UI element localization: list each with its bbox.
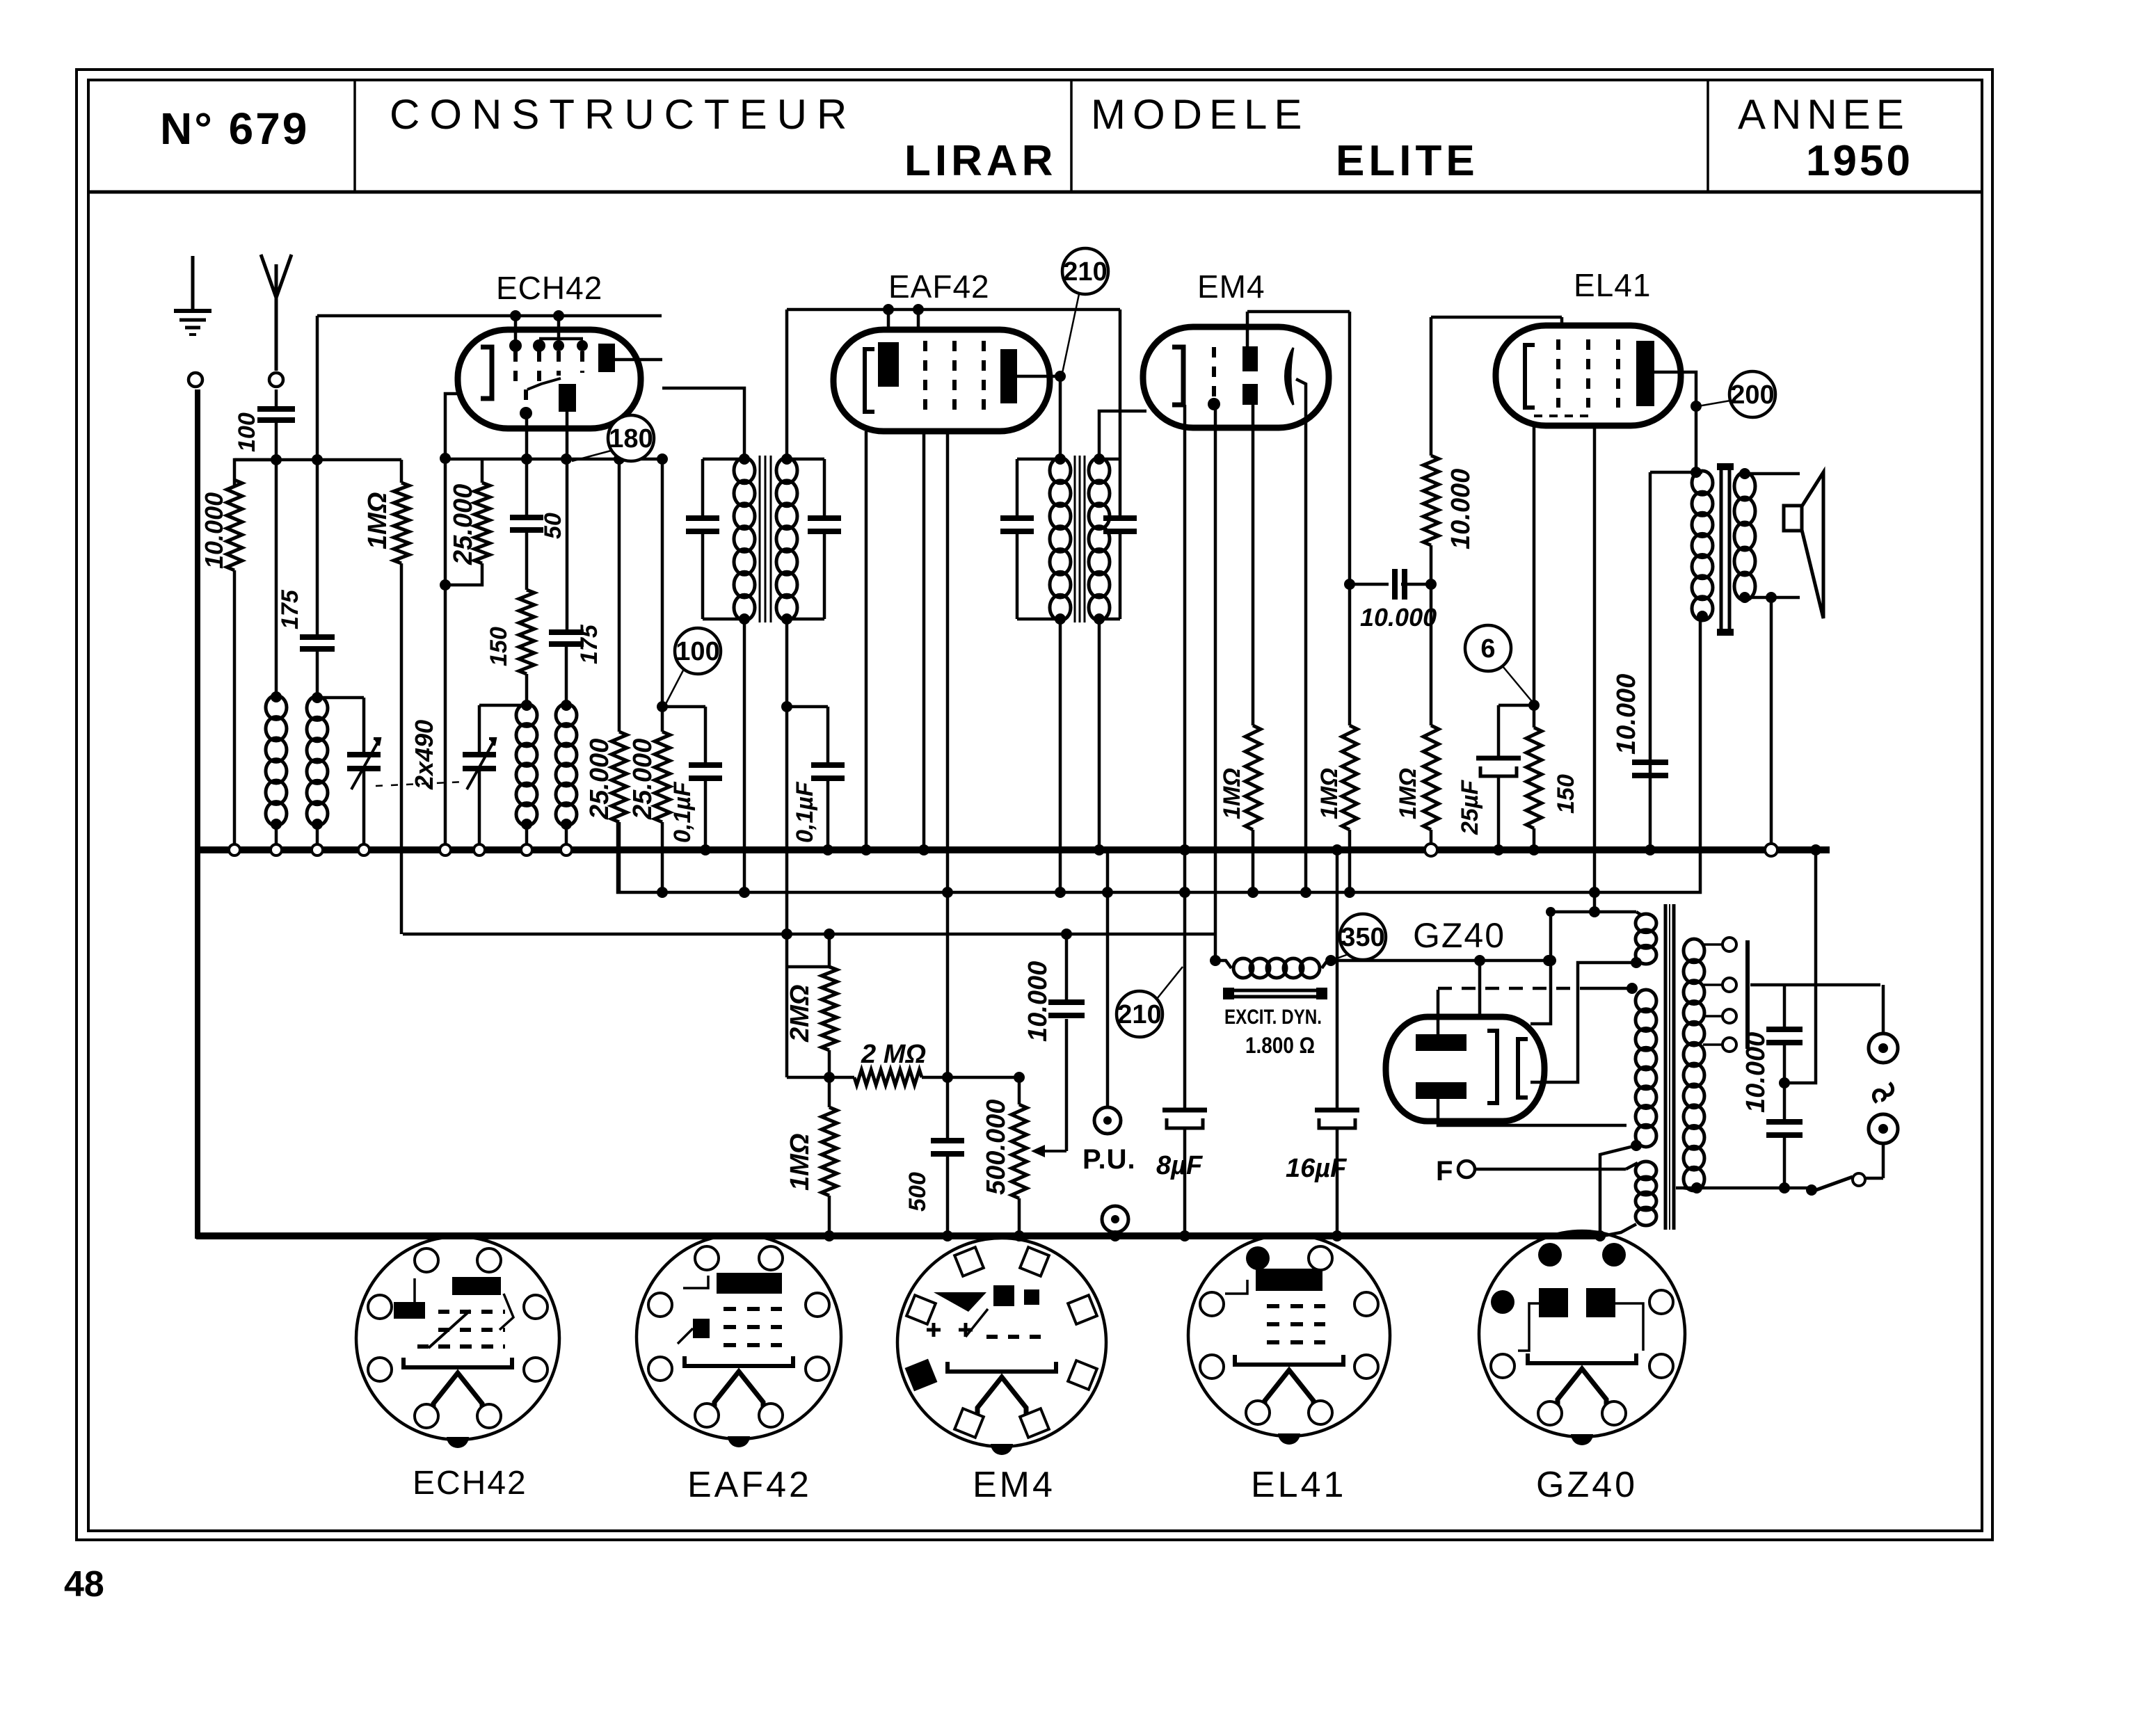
socket ECH42 bbox=[356, 1237, 559, 1448]
pot wiper arrow bbox=[1031, 1019, 1066, 1157]
capacitor 100 bbox=[257, 409, 295, 420]
svg-text:GZ40: GZ40 bbox=[1536, 1465, 1638, 1505]
label EAF42 bbox=[888, 268, 990, 305]
GZ40 cathode B bbox=[1518, 1039, 1528, 1098]
OT left rail bbox=[1649, 472, 1652, 762]
wire to R 10.000 bbox=[234, 460, 276, 487]
OT core bbox=[1717, 463, 1734, 636]
label GZ40 bbox=[1413, 916, 1505, 955]
ECH42 cathode bbox=[481, 347, 492, 399]
wire EL41 pin2 bbox=[1589, 426, 1600, 912]
ECH42 grid 3 bbox=[553, 340, 564, 376]
wire EAF42 top net bbox=[787, 304, 1120, 459]
ECH42 grid 2 bbox=[533, 339, 545, 381]
wire EAF42 cathode pin bbox=[861, 431, 872, 855]
capacitor 25uF bbox=[1476, 705, 1534, 855]
svg-text:2x490: 2x490 bbox=[410, 720, 438, 790]
label 50 bbox=[540, 513, 566, 539]
circle 350 bbox=[1340, 914, 1386, 960]
terminal A bbox=[269, 373, 283, 387]
header CONSTRUCTEUR bbox=[390, 91, 856, 138]
svg-text:210: 210 bbox=[1117, 1000, 1161, 1029]
label 1M A bbox=[1219, 768, 1245, 819]
resistor 1M C bbox=[1423, 584, 1439, 856]
capacitor 8uF bbox=[1162, 1110, 1207, 1241]
field coil core bbox=[1223, 988, 1327, 999]
wire EM4 pin1 bbox=[1179, 405, 1190, 855]
node antenna junction bbox=[271, 454, 282, 465]
resistor 25.000 osc bbox=[445, 459, 490, 585]
svg-text:CONSTRUCTEUR: CONSTRUCTEUR bbox=[390, 91, 856, 138]
GZ40 anode B bbox=[1416, 1082, 1466, 1099]
resistor 2M horizontal bbox=[787, 1070, 1019, 1085]
svg-text:EAF42: EAF42 bbox=[888, 268, 990, 305]
capacitor 175 antenna bbox=[300, 637, 335, 649]
header divider 3 bbox=[1707, 80, 1709, 192]
jack mains B bbox=[1869, 1114, 1898, 1178]
svg-text:LIRAR: LIRAR bbox=[904, 137, 1057, 185]
IF1 coil primary bbox=[734, 458, 755, 620]
svg-text:25.000: 25.000 bbox=[628, 739, 657, 820]
wire EL41 top net bbox=[1431, 317, 1562, 325]
antenna symbol bbox=[261, 255, 291, 371]
label 1M grid bbox=[363, 492, 392, 549]
tube GZ40 envelope bbox=[1386, 1017, 1544, 1121]
wire 2M link bbox=[787, 965, 829, 969]
socket label EL41 bbox=[1251, 1465, 1346, 1505]
label 1800 ohm bbox=[1245, 1033, 1315, 1058]
coil L3 osc primary bbox=[516, 704, 537, 826]
capacitor 0.1uF B bbox=[811, 707, 845, 855]
coil L1 antenna primary bbox=[266, 696, 287, 826]
svg-text:175: 175 bbox=[576, 624, 602, 664]
wire EAF42 pin3 diode load bbox=[942, 431, 953, 1077]
OT primary coil bbox=[1692, 471, 1713, 620]
ECH42 grid 4 bbox=[577, 340, 588, 373]
label 175 antenna bbox=[277, 589, 303, 629]
node 0.1uF A junction bbox=[657, 701, 705, 712]
wire R10.000 to bus bbox=[233, 570, 237, 850]
node excit left bbox=[1210, 955, 1221, 966]
wire osc grid lead bbox=[525, 412, 529, 517]
svg-text:ECH42: ECH42 bbox=[496, 270, 602, 306]
jack PU ground bbox=[1102, 1206, 1128, 1241]
tube EM4 envelope bbox=[1143, 327, 1329, 428]
ECH42 osc grid detail bbox=[520, 378, 561, 419]
leader 6 bbox=[1503, 666, 1534, 704]
EM4 target plate B bbox=[1242, 384, 1258, 405]
header MODELE bbox=[1091, 91, 1309, 138]
svg-text:8µF: 8µF bbox=[1156, 1151, 1204, 1180]
socket label EAF42 bbox=[687, 1465, 812, 1505]
svg-text:N° 679: N° 679 bbox=[160, 104, 309, 154]
socket label ECH42 bbox=[413, 1465, 527, 1502]
mains tilde bbox=[1873, 1083, 1892, 1102]
svg-text:150: 150 bbox=[486, 627, 512, 666]
potentiometer 500.000 bbox=[1012, 1072, 1027, 1241]
bottom bus wire bbox=[196, 1232, 1601, 1239]
label 0.1uF B bbox=[792, 781, 818, 843]
node ECH42 cathode junction bbox=[440, 453, 451, 464]
EL41 anode plate bbox=[1636, 341, 1654, 406]
field coil EXCIT DYN bbox=[1215, 958, 1391, 978]
svg-text:ECH42: ECH42 bbox=[413, 1465, 527, 1502]
IF2 capacitor left bbox=[1000, 459, 1034, 619]
label 150 cathode bbox=[1553, 774, 1579, 814]
node coupling cap left bbox=[1344, 579, 1355, 590]
resistor 1M AF bbox=[822, 1077, 837, 1241]
leader 200 bbox=[1698, 401, 1730, 406]
label 10.000 anode bbox=[1612, 674, 1641, 755]
svg-text:10.000: 10.000 bbox=[1446, 469, 1476, 549]
svg-text:1MΩ: 1MΩ bbox=[1316, 768, 1343, 819]
header 1950 bbox=[1806, 137, 1913, 185]
EL41 grid 2 bbox=[1586, 339, 1590, 408]
IF2 bottom wire bbox=[1017, 613, 1105, 625]
svg-text:10.000: 10.000 bbox=[1741, 1032, 1771, 1113]
svg-text:P.U.: P.U. bbox=[1082, 1144, 1136, 1175]
label 2M vertical bbox=[785, 985, 815, 1043]
wire HT coil return bbox=[1594, 1140, 1642, 1241]
svg-text:500: 500 bbox=[904, 1172, 931, 1212]
wire GZ40 anode A pin bbox=[1437, 990, 1440, 1034]
IF2 core bbox=[1075, 456, 1085, 622]
capacitor 175 osc bbox=[549, 632, 584, 644]
terminal F bbox=[1436, 1156, 1638, 1187]
svg-text:10.000: 10.000 bbox=[1360, 603, 1437, 632]
label 100 bbox=[234, 412, 260, 452]
wire ant coil to bus bbox=[271, 824, 282, 855]
svg-text:350: 350 bbox=[1341, 923, 1384, 952]
svg-text:ELITE: ELITE bbox=[1336, 137, 1479, 185]
page border inner bbox=[88, 80, 1982, 1531]
terminal E bbox=[189, 373, 202, 387]
GZ40 anode A bbox=[1416, 1034, 1466, 1051]
speaker bottom wire bbox=[1745, 592, 1800, 603]
label PU bbox=[1082, 1144, 1136, 1175]
ECH42 grid 1 bbox=[509, 339, 522, 381]
wire grid net bbox=[234, 458, 401, 462]
wire IF2 L1 bottom to H2 bbox=[1055, 619, 1066, 898]
svg-text:1MΩ: 1MΩ bbox=[363, 492, 392, 549]
EAF42 diode anode bbox=[878, 342, 899, 387]
svg-text:0,1µF: 0,1µF bbox=[792, 781, 818, 843]
node osc coil1 top bbox=[521, 700, 532, 711]
wire IF2 det out bbox=[1099, 411, 1146, 459]
node antenna coil top bbox=[271, 691, 282, 702]
EAF42 grid 2 bbox=[952, 341, 957, 412]
label 25.000 osc bbox=[449, 484, 478, 565]
svg-text:1MΩ: 1MΩ bbox=[1219, 768, 1245, 819]
socket EAF42 bbox=[637, 1235, 841, 1447]
leader 210 bottom bbox=[1157, 967, 1183, 999]
EL41 inner detail bbox=[1534, 415, 1593, 417]
label 10.000 EL41 bbox=[1446, 469, 1476, 549]
PT primary taps bbox=[1703, 938, 1736, 1052]
node antenna coil bottom bbox=[271, 819, 282, 830]
header ANNEE bbox=[1738, 91, 1910, 138]
svg-text:2 MΩ: 2 MΩ bbox=[861, 1040, 926, 1069]
variable capacitor CV1 bbox=[347, 739, 381, 789]
tube EAF42 envelope bbox=[833, 330, 1050, 431]
EL41 grid 1 bbox=[1556, 339, 1560, 408]
speaker driver bbox=[1784, 506, 1802, 531]
wire antenna lead bbox=[275, 389, 278, 409]
EM4 cathode bbox=[1172, 347, 1183, 405]
label 150 osc bbox=[486, 627, 512, 666]
wire cathode chain to bus bbox=[440, 458, 451, 855]
label 1M C bbox=[1395, 768, 1421, 819]
IF2 top wire bbox=[1017, 453, 1066, 465]
header separator bbox=[88, 191, 1982, 194]
svg-text:10.000: 10.000 bbox=[200, 492, 228, 569]
EAF42 cathode bbox=[865, 349, 874, 412]
wire sec coil top lead bbox=[316, 316, 319, 637]
AVC wire H3 bbox=[403, 933, 1215, 936]
label 2M horizontal bbox=[861, 1040, 926, 1069]
svg-text:EL41: EL41 bbox=[1251, 1465, 1346, 1505]
label 25uF bbox=[1457, 780, 1483, 835]
wire screen net bbox=[445, 458, 662, 461]
svg-text:6: 6 bbox=[1480, 634, 1495, 664]
capacitor 0.1uF A bbox=[689, 707, 722, 855]
gang dashed link bbox=[376, 782, 465, 786]
capacitor 50 bbox=[510, 517, 543, 530]
header ELITE bbox=[1336, 137, 1479, 185]
node 2M junction bbox=[824, 1072, 953, 1083]
HT wire H2 bbox=[618, 618, 1700, 892]
mains caps 10.000 bbox=[1766, 985, 1803, 1188]
chassis bus wire (main horizontal) bbox=[196, 846, 1830, 853]
wire 8uF chain bbox=[1179, 850, 1190, 1110]
svg-text:MODELE: MODELE bbox=[1091, 91, 1309, 138]
resistor 25.000 screen A bbox=[612, 460, 627, 892]
node R10.000 bus bbox=[229, 844, 240, 855]
resistor 25.000 screen B bbox=[655, 461, 670, 898]
coil L2 antenna secondary bbox=[307, 696, 328, 826]
heater dashed wire bbox=[1438, 983, 1638, 994]
EM4 deflector tail bbox=[1296, 379, 1306, 428]
circle 6 bbox=[1465, 625, 1511, 671]
label 8uF bbox=[1156, 1151, 1204, 1180]
svg-text:1MΩ: 1MΩ bbox=[785, 1134, 815, 1191]
node grid net a bbox=[312, 454, 323, 465]
page number 48 bbox=[64, 1564, 104, 1605]
svg-text:2MΩ: 2MΩ bbox=[785, 985, 815, 1043]
svg-text:F: F bbox=[1436, 1156, 1453, 1187]
capacitor 16uF bbox=[1315, 844, 1359, 1241]
wire IF1 L2 bottom bbox=[785, 619, 789, 934]
svg-text:25.000: 25.000 bbox=[585, 739, 614, 820]
node osc res bottom bbox=[440, 579, 451, 590]
label 1M B bbox=[1316, 768, 1343, 819]
wire GZ40 cathode bottom link bbox=[1530, 957, 1642, 1082]
wire sec coil lead 2 bbox=[312, 649, 323, 703]
svg-text:1.800 Ω: 1.800 Ω bbox=[1245, 1033, 1315, 1058]
svg-text:16µF: 16µF bbox=[1286, 1154, 1348, 1183]
EM4 deflector bbox=[1286, 348, 1294, 405]
OT bottom node bbox=[1697, 611, 1708, 622]
label 10.000 AF bbox=[1023, 961, 1053, 1042]
svg-text:25.000: 25.000 bbox=[449, 484, 478, 565]
IF1 capacitor left bbox=[686, 459, 719, 619]
socket EM4 bbox=[897, 1238, 1106, 1455]
wire GZ40 plate pin bbox=[1478, 961, 1482, 1017]
label 500 bbox=[904, 1172, 931, 1212]
circle 200 bbox=[1729, 371, 1775, 417]
svg-text:1MΩ: 1MΩ bbox=[1395, 768, 1421, 819]
EAF42 grid 1 bbox=[923, 341, 927, 412]
resistor 10.000 grid stopper bbox=[1423, 317, 1439, 590]
svg-text:100: 100 bbox=[676, 637, 719, 666]
svg-text:210: 210 bbox=[1063, 257, 1107, 287]
resistor 10.000 antenna bbox=[227, 480, 242, 570]
wire ECH42 cathode exit bbox=[445, 394, 459, 458]
circle 210 top bbox=[1062, 248, 1108, 294]
circle 210 bottom bbox=[1117, 991, 1162, 1037]
wire varcap 1 top bbox=[317, 698, 364, 755]
wire GZ40 anode B pin bbox=[1438, 1099, 1627, 1125]
circle 180 bbox=[608, 415, 654, 461]
svg-text:ANNEE: ANNEE bbox=[1738, 91, 1910, 138]
header LIRAR bbox=[904, 137, 1057, 185]
node 200 junction bbox=[1691, 401, 1702, 412]
node osc coil2 bottom bbox=[561, 819, 572, 855]
EM4 grid bbox=[1208, 347, 1220, 410]
jack mains A bbox=[1869, 985, 1898, 1063]
node screen net dots bbox=[521, 453, 668, 465]
tube EL41 envelope bbox=[1496, 325, 1681, 426]
label 500.000 bbox=[982, 1100, 1011, 1195]
wire IF1 L1 bottom to H2 bbox=[739, 619, 750, 898]
label 25.000 B bbox=[628, 739, 657, 820]
wire ECH42 top cap bbox=[317, 310, 662, 346]
EAF42 grid 3 bbox=[982, 341, 986, 412]
wire osc anode lead bbox=[566, 412, 569, 632]
OT secondary coil bbox=[1734, 468, 1755, 603]
svg-text:EL41: EL41 bbox=[1574, 267, 1651, 303]
wire varcap1 to bus bbox=[358, 769, 369, 855]
node sec coil bottom bbox=[312, 819, 323, 855]
PT secondary HT coil bbox=[1636, 912, 1656, 964]
label mains 10.000 bbox=[1741, 1032, 1771, 1113]
PT secondary heater coil bbox=[1636, 990, 1656, 1147]
coil L4 osc feedback bbox=[556, 704, 577, 826]
ECH42 hex anode bbox=[559, 384, 576, 412]
label 10.000 antenna bbox=[200, 492, 228, 569]
svg-text:10.000: 10.000 bbox=[1612, 674, 1641, 755]
wire GZ40 cathode top link bbox=[1530, 912, 1556, 1024]
label ECH42 bbox=[496, 270, 602, 306]
wire rectifier cathode bbox=[1391, 955, 1554, 966]
PT primary coil bbox=[1684, 939, 1704, 1191]
wire HT secondary top bbox=[1546, 906, 1636, 917]
wire osc coil2 lead bbox=[561, 644, 572, 711]
svg-text:10.000: 10.000 bbox=[1023, 961, 1053, 1042]
IF1 capacitor right bbox=[787, 459, 841, 619]
jack PU hot bbox=[1094, 850, 1121, 1134]
IF2 coil secondary bbox=[1089, 453, 1110, 620]
wire EM4 pin2 bbox=[1214, 404, 1217, 961]
svg-text:150: 150 bbox=[1553, 774, 1579, 814]
wire speaker return bbox=[1765, 597, 1777, 856]
wire detector chain bbox=[781, 929, 792, 1077]
svg-text:48: 48 bbox=[64, 1564, 104, 1605]
label 10.000 coupling bbox=[1360, 603, 1437, 632]
capacitor 10.000 coupling bbox=[1395, 569, 1405, 600]
EL41 cathode bbox=[1525, 345, 1535, 408]
ECH42 anode plate bbox=[598, 344, 615, 372]
label 1M AF bbox=[785, 1134, 815, 1191]
label EM4 bbox=[1197, 268, 1265, 305]
svg-text:50: 50 bbox=[540, 513, 566, 539]
IF2 coil primary bbox=[1050, 458, 1071, 620]
EAF42 anode plate bbox=[1000, 349, 1017, 403]
wire EM4 top net bbox=[1247, 312, 1350, 346]
header divider 1 bbox=[353, 80, 356, 192]
resistor 2M vertical bbox=[822, 929, 837, 1077]
header No 679 bbox=[160, 104, 309, 154]
label 175 osc bbox=[576, 624, 602, 664]
IF1 coil secondary bbox=[776, 453, 797, 620]
wire EM4 pin4 bbox=[1300, 428, 1311, 898]
label 2x490 bbox=[410, 720, 438, 790]
wire ECH42 anode bbox=[612, 360, 744, 459]
node osc coil1 bottom bbox=[521, 819, 532, 855]
leader 210 top bbox=[1062, 294, 1079, 376]
label 16uF bbox=[1286, 1154, 1348, 1183]
wire EM4 pin3 resistor 1M A bbox=[1245, 405, 1261, 898]
svg-text:180: 180 bbox=[609, 424, 653, 453]
svg-text:GZ40: GZ40 bbox=[1413, 916, 1505, 955]
socket GZ40 bbox=[1479, 1231, 1685, 1445]
wire EAF42 anode bbox=[1017, 371, 1066, 459]
socket label GZ40 bbox=[1536, 1465, 1638, 1505]
label 25.000 A bbox=[585, 739, 614, 820]
PT bottom wire bbox=[1676, 1182, 1809, 1193]
leader 350 bbox=[1325, 954, 1348, 966]
IF1 bottom wire bbox=[703, 613, 792, 625]
wire EL41 anode bbox=[1654, 372, 1696, 472]
wire antenna lead 2 bbox=[275, 420, 278, 697]
PT screen bbox=[1745, 940, 1750, 1049]
speaker cone bbox=[1802, 472, 1823, 618]
svg-text:EXCIT. DYN.: EXCIT. DYN. bbox=[1224, 1006, 1322, 1029]
speaker top wire bbox=[1745, 472, 1800, 476]
wire EM4 anode leg resistor 1M B bbox=[1342, 312, 1357, 898]
mains wire top bbox=[1750, 983, 1880, 987]
wire coupling cap bbox=[1350, 583, 1431, 586]
IF1 top wire bbox=[703, 453, 750, 465]
svg-text:1950: 1950 bbox=[1806, 137, 1913, 185]
IF1 core bbox=[760, 456, 771, 622]
EM4 target plate A bbox=[1242, 346, 1258, 371]
svg-text:200: 200 bbox=[1730, 380, 1774, 410]
leader 180 bbox=[572, 451, 611, 461]
leader 100 bbox=[666, 669, 684, 704]
svg-text:25µF: 25µF bbox=[1457, 780, 1483, 835]
svg-text:175: 175 bbox=[277, 589, 303, 629]
wire caps to bus bbox=[1784, 844, 1821, 1083]
resistor 150 osc bbox=[519, 530, 534, 705]
wire EL41 pin1 bbox=[1533, 426, 1536, 705]
socket label EM4 bbox=[973, 1465, 1055, 1505]
node EL41 cathode junction bbox=[1528, 700, 1540, 711]
svg-text:500.000: 500.000 bbox=[982, 1100, 1011, 1195]
resistor 1M ohm grid bbox=[394, 460, 409, 934]
svg-text:100: 100 bbox=[234, 412, 260, 452]
wire IF2 L2 bottom to bus bbox=[1094, 619, 1105, 855]
